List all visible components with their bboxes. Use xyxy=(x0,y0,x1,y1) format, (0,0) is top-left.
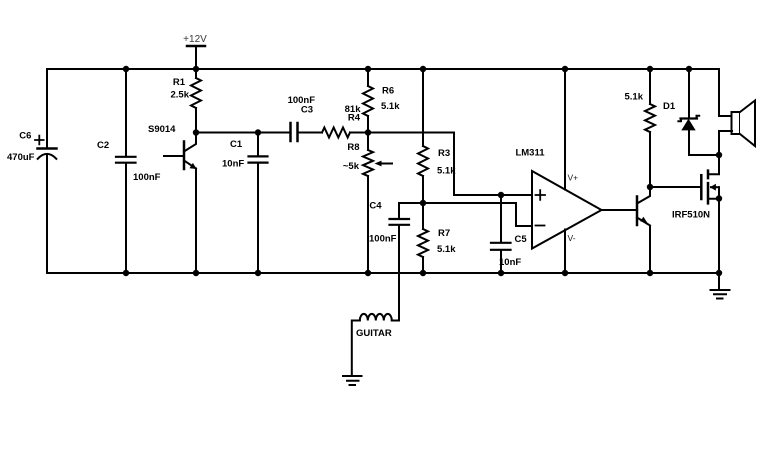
potentiometer R8 xyxy=(363,133,392,274)
svg-text:100nF: 100nF xyxy=(369,234,397,245)
wire left branch top xyxy=(46,69,48,148)
resistor R7 xyxy=(418,203,428,273)
op-amp U1 LM311 xyxy=(532,171,602,249)
svg-text:5.1k: 5.1k xyxy=(437,244,456,255)
wire V- pin xyxy=(564,230,566,274)
resistor R4 xyxy=(322,128,350,138)
transistor Q1 S9014 xyxy=(164,133,197,274)
svg-text:GUITAR: GUITAR xyxy=(356,328,392,339)
svg-text:5.1k: 5.1k xyxy=(625,92,644,103)
svg-text:C5: C5 xyxy=(515,234,528,245)
speaker LS1 xyxy=(719,69,755,155)
transistor Q2 xyxy=(637,187,650,273)
resistor R3 xyxy=(418,69,428,203)
wire C3 to R4 xyxy=(299,132,322,134)
svg-text:D1: D1 xyxy=(663,101,676,112)
svg-text:5.1k: 5.1k xyxy=(437,166,456,177)
capacitor C3 xyxy=(291,123,298,141)
svg-text:100nF: 100nF xyxy=(133,172,161,183)
capacitor C4 xyxy=(390,203,410,225)
svg-text:470uF: 470uF xyxy=(7,152,35,163)
svg-text:C6: C6 xyxy=(19,131,31,142)
svg-text:C4: C4 xyxy=(369,201,382,212)
mosfet M1 IRF510N xyxy=(701,155,719,273)
svg-text:S9014: S9014 xyxy=(148,124,176,135)
svg-text:2.5k: 2.5k xyxy=(171,90,190,101)
inductor L1 guitar xyxy=(352,314,399,375)
wire R4 to node xyxy=(350,132,368,134)
power rail +12V top xyxy=(47,68,719,70)
capacitor C1 xyxy=(249,133,268,274)
wire op-amp output xyxy=(602,209,637,211)
diode D1 zener xyxy=(678,69,719,155)
wire gate xyxy=(650,186,701,188)
wire C4 to guitar coil xyxy=(398,226,400,321)
wire divider node to minus input xyxy=(399,203,532,226)
resistor R9 5.1k xyxy=(645,69,655,187)
svg-text:IRF510N: IRF510N xyxy=(672,210,710,221)
ground rail bottom xyxy=(47,272,719,274)
svg-text:R3: R3 xyxy=(438,148,450,159)
svg-text:10nF: 10nF xyxy=(222,159,244,170)
svg-text:R6: R6 xyxy=(382,86,394,97)
svg-text:C2: C2 xyxy=(97,140,109,151)
svg-text:+12V: +12V xyxy=(183,34,207,45)
ground guitar xyxy=(343,376,362,385)
resistor R6 xyxy=(363,69,373,133)
capacitor C2 xyxy=(116,157,136,163)
svg-text:R4: R4 xyxy=(348,112,361,123)
+12V supply xyxy=(187,46,205,69)
resistor R1 xyxy=(191,69,201,133)
capacitor C5 xyxy=(491,195,511,273)
svg-text:C1: C1 xyxy=(230,139,243,150)
svg-text:V+: V+ xyxy=(568,173,579,183)
svg-text:5.1k: 5.1k xyxy=(381,101,400,112)
svg-text:R1: R1 xyxy=(173,77,186,88)
svg-text:10nF: 10nF xyxy=(499,257,521,268)
svg-text:R7: R7 xyxy=(438,228,450,239)
wire V+ pin xyxy=(564,69,566,190)
svg-text:C3: C3 xyxy=(301,105,313,116)
svg-text:~5k: ~5k xyxy=(343,161,360,172)
svg-text:LM311: LM311 xyxy=(515,148,545,159)
wire collector node to C1/C3 xyxy=(196,132,290,134)
wire left branch bottom xyxy=(46,154,48,273)
svg-text:V-: V- xyxy=(568,233,576,243)
wire node to corner xyxy=(368,133,532,196)
capacitor C6 xyxy=(35,136,57,159)
wire C2 column xyxy=(125,69,127,273)
ground right xyxy=(711,273,730,299)
svg-text:R8: R8 xyxy=(347,142,359,153)
